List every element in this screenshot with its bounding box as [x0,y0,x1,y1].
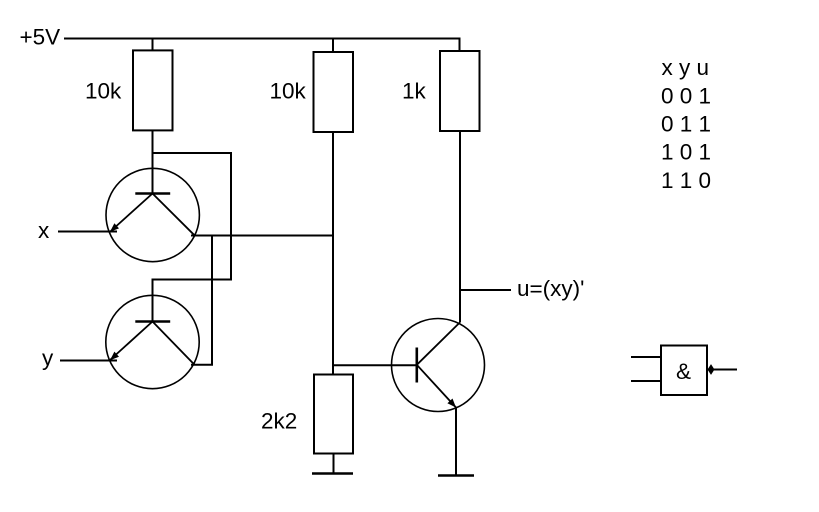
svg-text:2k2: 2k2 [261,409,297,434]
gate output wire [714,369,737,371]
svg-text:10k: 10k [270,78,307,103]
svg-text:0 0 1: 0 0 1 [661,84,711,109]
svg-text:1 1 0: 1 1 0 [661,168,711,193]
wire Q1 base to Q2 base [153,153,232,321]
resistor R2 10k [314,52,354,132]
wire input x [58,231,117,233]
wire Q3 emitter to ground [455,408,457,476]
resistor R1 10k [133,50,173,130]
wire R1 to Q1 base [152,130,154,193]
wire stub rail to R2 [332,39,334,52]
ground below Q3 [438,474,474,477]
transistor Q2 [106,295,199,388]
svg-text:1k: 1k [402,79,427,104]
wire Q3 collector to R3 [459,132,461,323]
gate inversion diamond [708,364,715,375]
wire R2 down to 2k2 [332,132,334,374]
gate input wire 1 [631,356,660,358]
svg-text:y: y [42,346,54,371]
wire output u [460,289,511,291]
svg-text:10k: 10k [85,78,122,103]
ground below 2k2 [312,472,353,475]
resistor R3 1k [440,51,480,131]
svg-text:u=(xy)': u=(xy)' [517,276,584,301]
wire node to Q3 base [333,364,417,366]
wire 2k2 to ground [333,454,335,474]
wire collector node to R2 [191,235,334,237]
svg-text:&: & [676,359,691,384]
gate U1 NAND body [661,346,707,396]
wire +5V rail [64,38,460,40]
wire Q2 collector up to node [191,235,212,365]
svg-text:0 1 1: 0 1 1 [661,112,711,137]
transistor Q1 [106,168,199,261]
gate input wire 2 [631,380,660,382]
wire stub rail to R3 [459,38,461,52]
resistor R4 2k2 [314,375,353,454]
svg-text:x: x [38,218,50,243]
svg-text:+5V: +5V [20,25,61,50]
wire input y [60,360,117,362]
svg-text:1 0 1: 1 0 1 [661,140,711,165]
wire stub rail to R1 [152,39,154,51]
transistor Q3 [392,319,485,412]
svg-text:x y u: x y u [662,55,710,80]
